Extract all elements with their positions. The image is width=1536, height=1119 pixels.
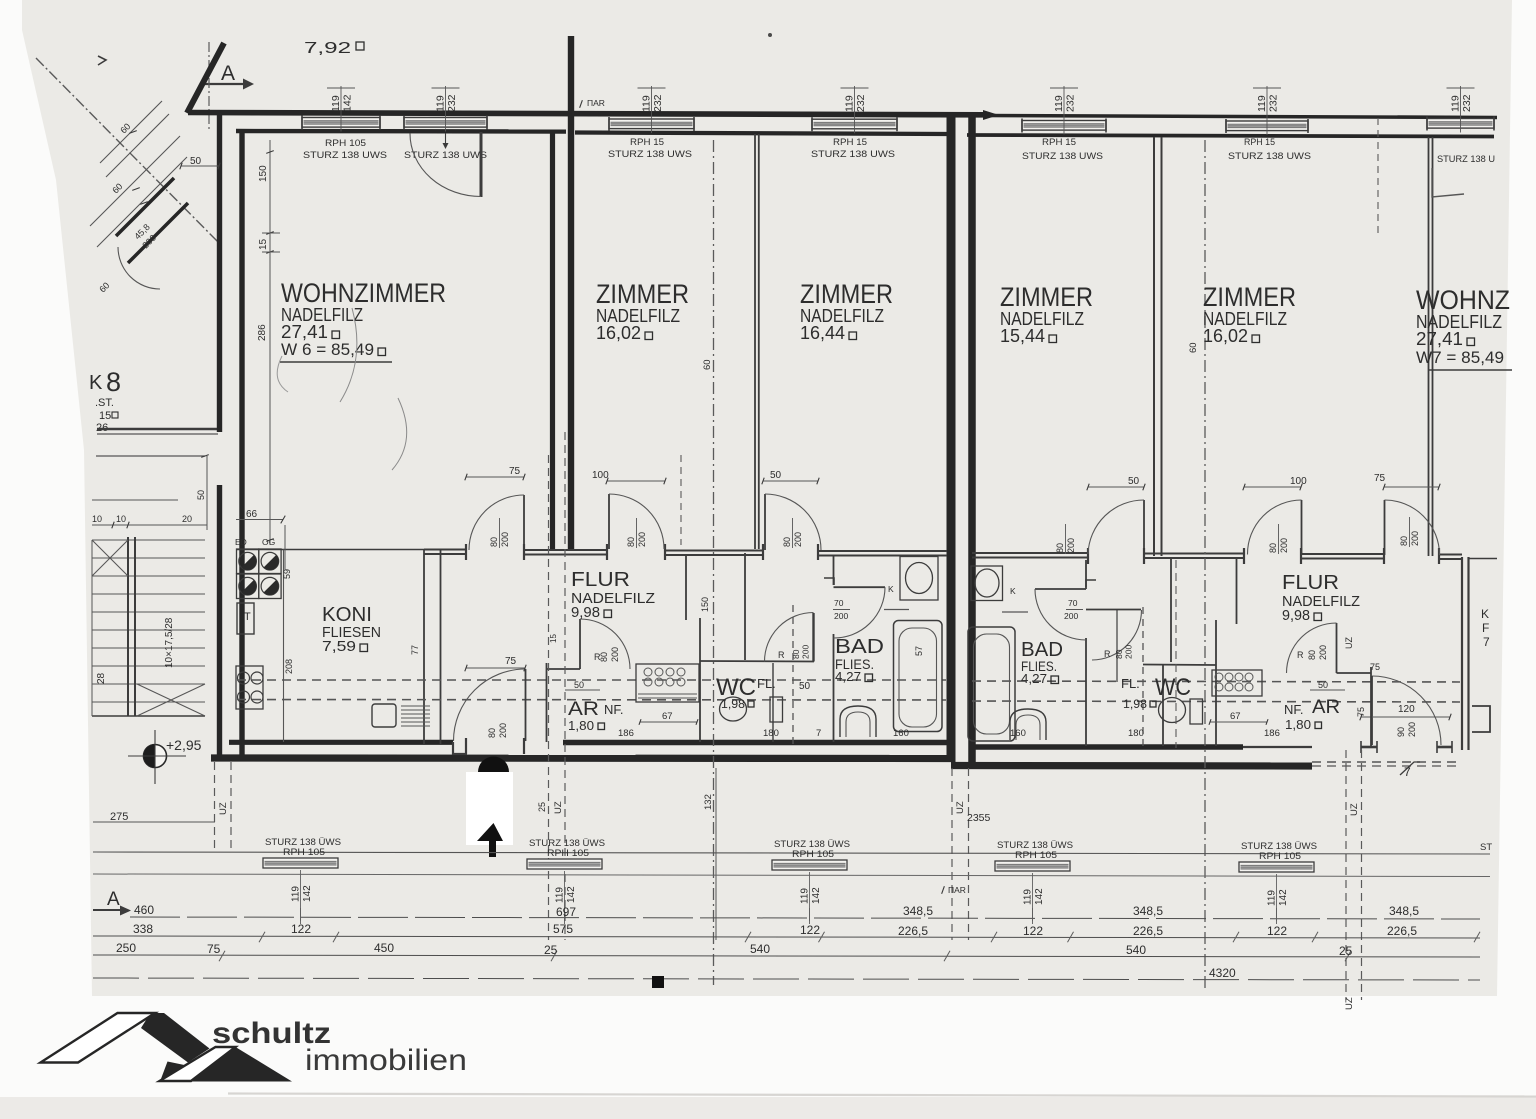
svg-text:200: 200 bbox=[1410, 531, 1420, 546]
svg-text:200: 200 bbox=[1124, 645, 1134, 659]
FLUR-WC partition stub right apartment bbox=[1236, 557, 1238, 624]
svg-text:119: 119 bbox=[435, 95, 447, 112]
svg-text:80: 80 bbox=[1307, 650, 1317, 660]
svg-text:STURZ 138 U: STURZ 138 U bbox=[1437, 154, 1495, 165]
svg-text:119: 119 bbox=[1450, 95, 1462, 112]
svg-text:200: 200 bbox=[834, 611, 848, 621]
corridor wall segment D1-D3 bbox=[524, 549, 607, 551]
svg-text:BAD: BAD bbox=[835, 636, 884, 658]
AR dim 50 bbox=[565, 689, 600, 691]
outer left wall lower segment bbox=[217, 485, 222, 760]
stair middle rail bbox=[127, 537, 129, 716]
svg-text:7: 7 bbox=[1404, 765, 1411, 779]
svg-text:80: 80 bbox=[1399, 536, 1409, 546]
terrace door arc bbox=[410, 134, 481, 197]
svg-text:80: 80 bbox=[626, 537, 636, 547]
svg-text:RPH 15: RPH 15 bbox=[833, 137, 867, 148]
row2 ticks bbox=[259, 932, 265, 942]
KONI dim 66 bbox=[236, 519, 283, 521]
svg-text:80: 80 bbox=[489, 537, 499, 547]
svg-text:1,80: 1,80 bbox=[568, 718, 594, 733]
svg-text:100: 100 bbox=[592, 470, 609, 481]
svg-text:ZIMMER: ZIMMER bbox=[1203, 282, 1296, 312]
window W6 right ZIMMER2 bbox=[1226, 121, 1308, 131]
svg-text:67: 67 bbox=[662, 711, 673, 722]
door D3 arc bbox=[609, 494, 664, 549]
svg-text:186: 186 bbox=[618, 728, 634, 739]
right door WOHNZ dim 75 bbox=[1384, 486, 1439, 488]
basin separation line bbox=[884, 609, 909, 611]
chevron mark top-left bbox=[98, 56, 106, 65]
svg-text:immobilien: immobilien bbox=[305, 1044, 467, 1077]
level mark 7 right bbox=[1400, 762, 1420, 775]
svg-text:AR: AR bbox=[568, 699, 599, 720]
dashed stub left of D3 bbox=[680, 455, 682, 545]
svg-text:119: 119 bbox=[291, 886, 302, 902]
svg-text:50: 50 bbox=[799, 681, 811, 692]
svg-text:226,5: 226,5 bbox=[1133, 924, 1163, 938]
lower boundary line of K8 room bbox=[96, 455, 205, 457]
svg-text:RPH 105: RPH 105 bbox=[1259, 851, 1301, 862]
right BAD right wall lower bbox=[1085, 638, 1087, 746]
svg-text:25: 25 bbox=[544, 943, 558, 957]
door D2 dim 75 bbox=[466, 667, 525, 669]
svg-text:15,44: 15,44 bbox=[1000, 326, 1045, 346]
svg-text:50: 50 bbox=[1318, 680, 1328, 690]
svg-text:80: 80 bbox=[599, 652, 609, 662]
svg-text:75: 75 bbox=[1374, 473, 1386, 484]
svg-text:575: 575 bbox=[553, 922, 573, 936]
door D4 arc bbox=[765, 494, 821, 550]
svg-text:119: 119 bbox=[1267, 890, 1278, 906]
svg-text:200: 200 bbox=[500, 532, 510, 547]
dim separator marks bbox=[262, 232, 280, 234]
inner top wall rooms left half bbox=[575, 133, 947, 135]
right door D3m leaf ZIMMER bbox=[1143, 500, 1145, 554]
door jamb ticks corridor right bbox=[1087, 548, 1089, 564]
right washbasin BAD bbox=[971, 566, 1003, 601]
partition right ZIMMER-ZIMMER double thin bbox=[1153, 137, 1155, 556]
dashed stub pair right UZ bbox=[1345, 750, 1347, 1000]
stair diagonal dim ticks bbox=[129, 131, 137, 134]
svg-text:697: 697 bbox=[556, 905, 576, 919]
svg-text:STURZ 138 UWS: STURZ 138 UWS bbox=[608, 149, 692, 160]
right shelf block bbox=[1212, 670, 1262, 696]
svg-text:15: 15 bbox=[99, 410, 111, 422]
stair cross X upper bbox=[92, 540, 128, 576]
window W4 ZIMMER2 bbox=[812, 119, 897, 129]
svg-text:80: 80 bbox=[782, 537, 792, 547]
BAD jamb top-left bbox=[824, 578, 834, 585]
svg-text:T: T bbox=[244, 611, 251, 623]
right AR right wall bbox=[1370, 667, 1372, 746]
svg-text:K: K bbox=[1010, 586, 1016, 596]
svg-text:9,98: 9,98 bbox=[1282, 607, 1310, 624]
lower facade window LW2 bbox=[527, 859, 602, 869]
WC right wall bbox=[772, 663, 774, 742]
door D2 exit leaf bbox=[525, 669, 527, 741]
svg-text:150: 150 bbox=[700, 597, 710, 612]
svg-text:119: 119 bbox=[555, 887, 566, 903]
right AR dim 50 bbox=[1310, 689, 1345, 691]
svg-text:460: 460 bbox=[134, 903, 154, 917]
stair treads bbox=[92, 539, 205, 541]
door jamb ticks corridor left bbox=[465, 544, 467, 560]
sink unit 4 circles bbox=[236, 666, 263, 709]
KONI top wall thin bbox=[236, 549, 424, 551]
right lower door jamb blocks bbox=[1361, 746, 1377, 749]
door D3 ZIMMER1 leaf bbox=[608, 494, 610, 549]
svg-text:80: 80 bbox=[1055, 543, 1065, 553]
bottom wall outer right apartment bbox=[951, 762, 1312, 770]
svg-text:200: 200 bbox=[801, 645, 811, 659]
svg-text:STURZ 138 UWS: STURZ 138 UWS bbox=[811, 149, 895, 160]
svg-text:119: 119 bbox=[1256, 95, 1268, 112]
svg-text:60: 60 bbox=[1188, 342, 1199, 353]
svg-text:142: 142 bbox=[1034, 888, 1045, 905]
svg-text:4320: 4320 bbox=[1209, 966, 1236, 980]
WC toilet left bbox=[720, 697, 747, 721]
svg-text:K: K bbox=[888, 584, 894, 594]
svg-text:540: 540 bbox=[1126, 943, 1146, 957]
right WC left wall bbox=[1162, 665, 1164, 746]
svg-text:KONI: KONI bbox=[322, 604, 372, 626]
underline W7 bbox=[1428, 369, 1512, 371]
bathtub left BAD bbox=[894, 621, 943, 732]
underline W6 bbox=[280, 361, 392, 363]
svg-text:4,27: 4,27 bbox=[1021, 671, 1047, 686]
svg-text:K: K bbox=[89, 372, 103, 394]
svg-text:50: 50 bbox=[1128, 476, 1140, 487]
stair diagonal thin line 1 bbox=[100, 101, 162, 163]
svg-text:RPH 105: RPH 105 bbox=[325, 138, 366, 149]
svg-text:200: 200 bbox=[793, 532, 803, 547]
svg-text:200: 200 bbox=[1279, 538, 1289, 553]
svg-text:RPH 15: RPH 15 bbox=[1042, 137, 1076, 148]
door D2 arc bbox=[454, 669, 526, 741]
right BAD door arc bbox=[1035, 589, 1086, 640]
dashed stub pair party wall bbox=[951, 768, 953, 940]
dimension row 1 line bbox=[130, 917, 1480, 919]
BAD left wall lower bbox=[833, 634, 835, 742]
T box bbox=[237, 603, 254, 634]
exterior wall top bbox=[188, 113, 983, 115]
faint revision arc near WOHNZIMMER label bbox=[340, 308, 357, 402]
corridor wall segment D4-party bbox=[818, 550, 947, 552]
section line A dash-dot diagonal bbox=[36, 58, 219, 243]
svg-text:122: 122 bbox=[291, 922, 311, 936]
svg-text:142: 142 bbox=[302, 885, 313, 902]
dim 67 right bbox=[1210, 721, 1267, 723]
bottom wall inner AR-WC-BAD segment bbox=[563, 740, 947, 746]
exterior wall top-left diagonal bbox=[187, 43, 224, 113]
entrance black half-dome bbox=[478, 757, 509, 772]
KONI sink square near wall bbox=[372, 704, 396, 727]
svg-text:UZ: UZ bbox=[1349, 803, 1360, 816]
outer left wall upper segment bbox=[217, 115, 222, 432]
row1 ticks bbox=[300, 908, 302, 924]
right corridor wall stub to paper edge bbox=[1468, 558, 1497, 560]
svg-text:K: K bbox=[1481, 607, 1489, 621]
beam dash-dot line left UZ bbox=[713, 140, 715, 985]
stair diagonal thin line 2 bbox=[106, 114, 169, 177]
lower facade window LW3 bbox=[772, 860, 847, 870]
logo roof2 black triangle right bbox=[191, 1047, 292, 1082]
svg-text:.ST.: .ST. bbox=[95, 397, 114, 409]
svg-text:160: 160 bbox=[893, 728, 909, 739]
svg-text:50: 50 bbox=[574, 680, 584, 690]
corridor wall segment D3-D4 bbox=[665, 550, 763, 552]
logo roof2 black wedge left bbox=[160, 1062, 206, 1082]
dim 67 left bbox=[640, 721, 697, 723]
svg-text:119: 119 bbox=[330, 95, 342, 112]
wall above K8 room bbox=[97, 428, 218, 430]
corridor wall segment KONI-D1 bbox=[424, 549, 466, 551]
entrance white patch bbox=[466, 772, 513, 845]
WC lobby door leaf left bbox=[812, 613, 814, 662]
AR top wall left bbox=[547, 668, 581, 670]
right corridor wall segment party-D5o bbox=[972, 552, 1088, 554]
svg-text:200: 200 bbox=[1064, 611, 1078, 621]
svg-text:50: 50 bbox=[770, 470, 782, 481]
svg-text:STURZ 138 UWS: STURZ 138 UWS bbox=[1228, 151, 1311, 162]
door frame bracket under W7 bbox=[1432, 168, 1464, 197]
svg-text:75: 75 bbox=[207, 942, 221, 956]
svg-text:NF.: NF. bbox=[604, 702, 624, 717]
svg-text:70: 70 bbox=[1068, 598, 1078, 608]
svg-text:119: 119 bbox=[641, 95, 653, 112]
ink dot top bbox=[768, 33, 772, 37]
top-left inner dim 50 bbox=[181, 165, 219, 167]
svg-text:RPH 105: RPH 105 bbox=[547, 848, 589, 859]
svg-text:FL.: FL. bbox=[757, 676, 776, 691]
terrace door leaf in WOHNZIMMER bbox=[480, 132, 483, 197]
wall WOHNZIMMER-ZIMMER line A bbox=[550, 131, 555, 549]
KONI counter line bbox=[283, 550, 285, 743]
svg-text:60: 60 bbox=[702, 359, 713, 370]
svg-text:10: 10 bbox=[92, 514, 102, 524]
dashed outer wall right of bottom wall bbox=[1312, 761, 1462, 763]
svg-text:142: 142 bbox=[566, 886, 577, 903]
right BAD jamb top-right bbox=[1086, 580, 1096, 587]
svg-text:RPH 105: RPH 105 bbox=[283, 847, 325, 858]
inner top wall left of window W1 bbox=[236, 129, 566, 134]
right terrace wall bracket bbox=[1472, 706, 1490, 732]
svg-text:1,98: 1,98 bbox=[1123, 697, 1147, 711]
svg-text:80: 80 bbox=[1114, 649, 1124, 659]
svg-text:186: 186 bbox=[1264, 728, 1280, 739]
svg-text:540: 540 bbox=[750, 942, 770, 956]
right AR door leaf bbox=[1336, 623, 1338, 673]
wohnzimmer dim line vertical bbox=[269, 140, 271, 545]
svg-text:122: 122 bbox=[1267, 924, 1287, 938]
right corridor wall segment mid bbox=[1144, 553, 1244, 555]
window W2 axis arrow bbox=[445, 133, 447, 143]
right WC right wall bbox=[1215, 620, 1217, 746]
svg-text:232: 232 bbox=[446, 94, 458, 112]
svg-text:25: 25 bbox=[537, 802, 547, 812]
door D1 dim 75 bbox=[466, 476, 524, 478]
svg-text:232: 232 bbox=[1268, 94, 1280, 112]
svg-text:59: 59 bbox=[282, 569, 292, 579]
svg-text:200: 200 bbox=[498, 723, 508, 738]
thick diagonal wall piece 1 bbox=[116, 178, 174, 236]
svg-text:180: 180 bbox=[1128, 728, 1144, 739]
svg-text:16,02: 16,02 bbox=[1203, 326, 1248, 346]
bottom wall outer left apartment bbox=[211, 754, 951, 762]
svg-text:FL.: FL. bbox=[1121, 676, 1140, 691]
elevation mark circle +2,95 bbox=[144, 745, 167, 768]
svg-text:FLUR: FLUR bbox=[1282, 572, 1339, 594]
svg-text:10×17,5/28: 10×17,5/28 bbox=[164, 617, 175, 668]
svg-text:67: 67 bbox=[1230, 711, 1241, 722]
door D1 arc bbox=[469, 495, 524, 550]
right lower door leaf bbox=[1371, 676, 1373, 745]
black square mark row4 bbox=[652, 976, 664, 988]
svg-text:ПAR: ПAR bbox=[948, 885, 966, 895]
svg-text:180: 180 bbox=[763, 728, 779, 739]
svg-text:232: 232 bbox=[652, 94, 664, 112]
KONI drainer hatch bbox=[401, 705, 430, 707]
svg-text:7,92: 7,92 bbox=[304, 40, 351, 57]
FL dashed niche lines bbox=[792, 605, 794, 745]
svg-text:119: 119 bbox=[1053, 95, 1065, 112]
door D2 jamb marks bbox=[465, 738, 467, 754]
svg-text:142: 142 bbox=[811, 887, 822, 904]
svg-text:9,98: 9,98 bbox=[571, 604, 600, 621]
svg-text:132: 132 bbox=[703, 794, 714, 810]
facade line 1 bbox=[93, 852, 1490, 854]
svg-text:75: 75 bbox=[509, 466, 521, 477]
svg-text:A: A bbox=[107, 889, 120, 910]
right WC lobby door arc bbox=[1092, 610, 1142, 660]
beam dash-dot line right UZ bbox=[1204, 140, 1206, 990]
svg-text:STURZ 138 UWS: STURZ 138 UWS bbox=[303, 150, 387, 161]
svg-text:232: 232 bbox=[855, 94, 867, 112]
AR door arc left bbox=[580, 619, 630, 669]
thick diagonal wall piece 2 bbox=[128, 203, 188, 263]
svg-text:FLUR: FLUR bbox=[571, 569, 630, 591]
svg-text:275: 275 bbox=[110, 811, 128, 823]
svg-text:16,44: 16,44 bbox=[800, 323, 845, 343]
svg-text:A: A bbox=[221, 62, 235, 85]
WC lobby door arc left bbox=[765, 613, 814, 662]
right door WOHNZ arc bbox=[1385, 500, 1440, 555]
svg-text:2355: 2355 bbox=[967, 812, 991, 824]
faint separation line above bottom strip bbox=[228, 1094, 1536, 1097]
svg-text:200: 200 bbox=[1407, 722, 1417, 737]
svg-text:RPH 105: RPH 105 bbox=[792, 849, 834, 860]
right door D3m arc bbox=[1088, 500, 1144, 554]
WC top wall bbox=[700, 660, 814, 663]
window W3 ZIMMER1 bbox=[609, 119, 694, 129]
BAD door leaf horizontal bbox=[834, 586, 886, 588]
right door D4m dim 100 bbox=[1244, 486, 1301, 488]
dimension row 4 line bbox=[93, 978, 1480, 980]
stair cross X lower bbox=[137, 684, 205, 716]
svg-text:UZ: UZ bbox=[955, 801, 966, 814]
svg-text:70: 70 bbox=[834, 598, 844, 608]
svg-text:75: 75 bbox=[1356, 707, 1366, 717]
svg-text:1,98: 1,98 bbox=[721, 697, 745, 711]
svg-text:27,41: 27,41 bbox=[281, 322, 328, 342]
inner top wall rooms right half bbox=[967, 135, 1494, 137]
right WC upper stub bbox=[1170, 557, 1172, 662]
right FL dashed niche bbox=[1142, 607, 1144, 748]
WC upper stub bbox=[744, 553, 746, 660]
svg-text:75: 75 bbox=[505, 656, 517, 667]
svg-text:UZ: UZ bbox=[1344, 637, 1354, 649]
svg-text:338: 338 bbox=[133, 922, 153, 936]
svg-text:7,59: 7,59 bbox=[322, 638, 356, 655]
facade line 2 bbox=[93, 874, 1490, 877]
door D3 dim 100 bbox=[607, 480, 665, 482]
lower facade window LW5 bbox=[1239, 862, 1314, 872]
svg-text:226,5: 226,5 bbox=[1387, 924, 1417, 938]
stove block 2x2 bbox=[237, 549, 259, 574]
svg-text:200: 200 bbox=[610, 647, 620, 662]
window jamb dashed right WOHNZ bbox=[1377, 118, 1379, 235]
section marker A arrow bbox=[205, 83, 245, 85]
svg-text:ПAR: ПAR bbox=[587, 98, 605, 108]
svg-text:100: 100 bbox=[1290, 476, 1307, 487]
wall WOHNZIMMER-ZIMMER line B with section cut above bbox=[568, 36, 574, 549]
row3 ticks slashed bbox=[219, 951, 225, 961]
svg-text:RPH 15: RPH 15 bbox=[1244, 137, 1275, 148]
dashed guide line lower left apartment bbox=[237, 699, 946, 702]
right AR top wall bbox=[1337, 672, 1372, 674]
svg-text:10: 10 bbox=[116, 514, 126, 524]
FLUR-WC partition stub left bbox=[685, 556, 687, 620]
svg-text:+2,95: +2,95 bbox=[166, 737, 202, 753]
svg-text:142: 142 bbox=[342, 94, 354, 112]
toilet left BAD bbox=[840, 706, 876, 737]
svg-text:232: 232 bbox=[1065, 94, 1077, 112]
svg-text:80: 80 bbox=[487, 728, 497, 738]
logo roof1 white slope bbox=[41, 1013, 156, 1063]
right BAD door leaf horizontal bbox=[1035, 588, 1086, 590]
door D4 ZIMMER2 leaf bbox=[764, 494, 766, 550]
svg-text:28: 28 bbox=[96, 672, 107, 684]
svg-text:20: 20 bbox=[182, 514, 192, 524]
beam dash-dot right of party wall bbox=[1175, 560, 1177, 748]
stair vertical dim with label 50 bbox=[206, 456, 208, 530]
svg-text:1,80: 1,80 bbox=[1285, 717, 1311, 732]
right door D4m leaf bbox=[1301, 500, 1303, 555]
right corridor outer wall lines bbox=[1461, 557, 1463, 750]
right WC top wall bbox=[1143, 664, 1216, 667]
svg-text:16,02: 16,02 bbox=[596, 323, 641, 343]
svg-text:122: 122 bbox=[800, 923, 820, 937]
right bathtub BAD bbox=[968, 627, 1015, 741]
party wall line A bbox=[947, 116, 956, 762]
section axis dash-dot vertical at left corner bbox=[208, 42, 210, 130]
svg-text:WOHNZ: WOHNZ bbox=[1416, 285, 1510, 315]
svg-text:348,5: 348,5 bbox=[903, 904, 933, 918]
right corridor wall segment 2 bbox=[1301, 553, 1384, 555]
logo roof2 white slope bbox=[160, 1047, 236, 1081]
dim line 275 bbox=[93, 821, 215, 823]
svg-text:80: 80 bbox=[1268, 543, 1278, 553]
svg-text:226,5: 226,5 bbox=[898, 924, 928, 938]
svg-text:UZ: UZ bbox=[1344, 997, 1355, 1010]
svg-text:119: 119 bbox=[844, 95, 856, 112]
KONI bottom wall notch bbox=[453, 742, 467, 754]
svg-text:348,5: 348,5 bbox=[1389, 904, 1419, 918]
window W2 WOHNZIMMER right bbox=[404, 118, 487, 128]
bottom wall inner right apartment bbox=[972, 744, 1243, 750]
right door D4m arc bbox=[1247, 500, 1301, 555]
